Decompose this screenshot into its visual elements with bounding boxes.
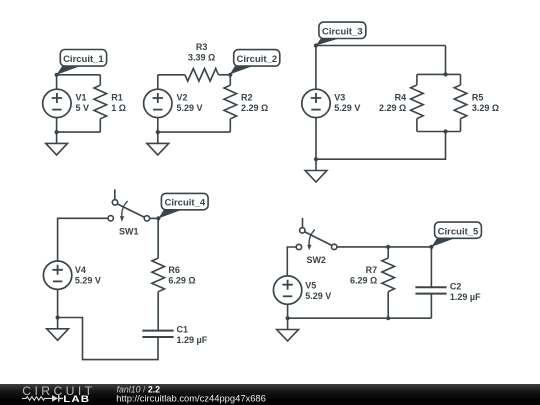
svg-text:1.29 µF: 1.29 µF xyxy=(450,292,481,302)
label V3 5.29 V xyxy=(334,92,360,112)
wire node C down to R2 xyxy=(229,75,231,85)
label V5 5.29 V xyxy=(305,280,331,301)
switch SW1 xyxy=(108,189,150,221)
label R3 3.39 ohm xyxy=(188,42,215,63)
ground xyxy=(147,132,169,155)
ground xyxy=(46,132,68,155)
svg-text:3.29 Ω: 3.29 Ω xyxy=(472,103,499,113)
wire SW2 common to node K and node L xyxy=(337,246,431,248)
svg-text:R2: R2 xyxy=(241,92,253,102)
node A (top) xyxy=(55,73,59,77)
svg-text:2.29 Ω: 2.29 Ω xyxy=(379,103,406,113)
svg-text:6.29 Ω: 6.29 Ω xyxy=(350,276,377,286)
wire node I down to R6 xyxy=(157,218,159,258)
wire R5 bottom lead xyxy=(460,119,462,132)
wire node E down to V3 top xyxy=(315,46,317,90)
voltage source V1 xyxy=(43,89,71,117)
svg-text:V1: V1 xyxy=(76,92,87,102)
svg-text:LAB: LAB xyxy=(63,395,90,405)
label C1 1.29 uF xyxy=(177,325,208,346)
node M (R7 bottom) xyxy=(386,316,390,320)
resistor R7 xyxy=(382,258,395,292)
wire V5 top up and right to SW2 xyxy=(287,247,296,276)
svg-text:5.29 V: 5.29 V xyxy=(75,276,101,286)
capacitor C1 xyxy=(142,331,173,337)
svg-text:Circuit_5: Circuit_5 xyxy=(438,226,479,237)
svg-text:Circuit_2: Circuit_2 xyxy=(236,54,277,65)
node G (parallel bottom) xyxy=(443,129,447,133)
svg-text:1.29 µF: 1.29 µF xyxy=(177,335,208,345)
label bubble Circuit_4 xyxy=(158,193,208,218)
node I (switch output) xyxy=(156,216,160,220)
wire top-left corner to R3 xyxy=(158,74,185,76)
svg-text:Circuit_4: Circuit_4 xyxy=(164,198,205,209)
svg-text:V2: V2 xyxy=(177,92,188,102)
wire node A to top-right corner xyxy=(57,74,101,76)
node F (parallel top) xyxy=(443,72,447,76)
node N (V5 bottom) xyxy=(286,316,290,320)
resistor R6 xyxy=(152,258,165,292)
svg-text:2.29 Ω: 2.29 Ω xyxy=(241,103,268,113)
wire V1 bottom to node B xyxy=(56,118,58,133)
svg-text:R3: R3 xyxy=(196,42,208,52)
label bubble Circuit_2 xyxy=(230,50,280,75)
wire node A down to V1 top xyxy=(56,75,58,89)
svg-text:R4: R4 xyxy=(395,92,407,102)
wire V2 bottom to node D xyxy=(157,118,159,133)
wire node G down and left to V3 bottom xyxy=(316,132,446,160)
node C (top) xyxy=(228,73,232,77)
label V4 5.29 V xyxy=(75,265,101,286)
label bubble Circuit_3 xyxy=(316,22,366,45)
label bubble Circuit_1 xyxy=(57,50,107,75)
wire R5 top lead xyxy=(460,74,462,85)
svg-text:C2: C2 xyxy=(450,281,462,291)
label R1 1 ohm xyxy=(111,92,126,112)
voltage source V5 xyxy=(273,276,301,304)
label R7 6.29 ohm xyxy=(350,265,377,286)
label V1 5 V xyxy=(76,92,90,112)
svg-text:R6: R6 xyxy=(168,265,180,275)
ground xyxy=(305,159,327,182)
resistor R4 xyxy=(411,85,424,119)
svg-text:Circuit_1: Circuit_1 xyxy=(63,54,104,65)
voltage source V2 xyxy=(144,89,172,117)
wire node K down to R7 xyxy=(387,247,389,258)
wire V5 bottom to node N xyxy=(287,304,289,318)
resistor R2 xyxy=(224,85,237,119)
node L (C2 top) xyxy=(429,245,433,249)
node E (top left) xyxy=(314,43,318,47)
ground xyxy=(47,318,69,341)
wire node D to R2 bottom xyxy=(158,131,231,133)
label V2 5.29 V xyxy=(177,92,203,112)
ground xyxy=(277,318,299,341)
node D (bottom) xyxy=(156,130,160,134)
wire V4 top up and right to SW1 xyxy=(58,218,108,261)
wire R4 bottom lead xyxy=(416,119,418,132)
wire corner down to V2 xyxy=(157,75,159,89)
switch SW2 xyxy=(296,218,337,250)
wire R2 bottom lead xyxy=(229,119,231,132)
wire V3 bottom to node H xyxy=(315,118,317,160)
svg-text:5 V: 5 V xyxy=(76,103,90,113)
wire bottom bar R4-R5 xyxy=(417,131,461,133)
wire SW1 common to node I xyxy=(150,217,159,219)
resistor R1 xyxy=(94,85,107,119)
wire node E to right corner xyxy=(316,45,446,47)
wire C1 bottom left and up to V4 bottom xyxy=(58,318,158,360)
node J (V4 bottom) xyxy=(56,315,60,319)
svg-text:5.29 V: 5.29 V xyxy=(305,291,331,301)
wire top bar R4-R5 xyxy=(417,73,461,75)
svg-text:C1: C1 xyxy=(177,325,189,335)
label R4 2.29 ohm xyxy=(379,92,406,112)
voltage source V3 xyxy=(302,89,330,117)
svg-text:V5: V5 xyxy=(305,280,316,290)
label R6 6.29 ohm xyxy=(168,265,195,286)
svg-text:R5: R5 xyxy=(472,92,484,102)
label C2 1.29 uF xyxy=(450,281,481,302)
node H (V3 bottom) xyxy=(314,157,318,161)
wire R1 top lead from corner xyxy=(99,75,101,85)
svg-text:V4: V4 xyxy=(75,265,86,275)
svg-text:5.29 V: 5.29 V xyxy=(177,103,203,113)
resistor R5 xyxy=(454,85,467,119)
wire bottom rail xyxy=(288,317,432,319)
resistor R3 (horizontal) xyxy=(185,69,219,82)
svg-text:Circuit_3: Circuit_3 xyxy=(322,26,363,37)
wire R7 bottom to node M xyxy=(387,292,389,319)
wire C2 bottom down to bottom rail xyxy=(430,294,432,319)
wire right corner down to node F xyxy=(445,46,447,75)
wire R6 bottom to C1 top xyxy=(157,292,159,331)
wire R4 top lead xyxy=(416,74,418,85)
label R2 2.29 ohm xyxy=(241,92,268,112)
voltage source V4 xyxy=(43,261,71,289)
wire node L down to C2 xyxy=(430,247,432,287)
svg-text:3.39 Ω: 3.39 Ω xyxy=(188,52,215,62)
logo resistor-diode glyph xyxy=(22,397,52,401)
svg-text:SW2: SW2 xyxy=(306,255,326,265)
svg-text:SW1: SW1 xyxy=(119,227,139,237)
wire V4 bottom to node J xyxy=(57,290,59,318)
node B (bottom) xyxy=(55,130,59,134)
svg-text:R7: R7 xyxy=(366,265,378,275)
svg-text:http://circuitlab.com/cz44ppg4: http://circuitlab.com/cz44ppg47x686 xyxy=(116,392,266,403)
node K (R7 top) xyxy=(386,245,390,249)
wire R3 to node C xyxy=(219,74,231,76)
label R5 3.29 ohm xyxy=(472,92,499,112)
label bubble Circuit_5 xyxy=(431,222,481,247)
svg-text:5.29 V: 5.29 V xyxy=(334,103,360,113)
capacitor C2 xyxy=(415,287,446,293)
wire bottom node B to R1 bottom xyxy=(57,131,101,133)
svg-text:R1: R1 xyxy=(111,92,123,102)
wire R1 bottom lead xyxy=(99,119,101,132)
svg-text:6.29 Ω: 6.29 Ω xyxy=(168,276,195,286)
svg-text:V3: V3 xyxy=(334,92,345,102)
svg-text:1 Ω: 1 Ω xyxy=(111,103,126,113)
